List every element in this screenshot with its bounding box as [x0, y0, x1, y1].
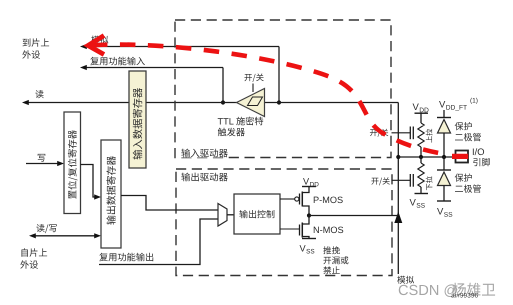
wire output stage to pad — [309, 215, 398, 217]
hysteresis symbol — [248, 97, 263, 106]
power VSS (diode) — [437, 200, 451, 202]
TTL schmitt trigger U1 — [237, 89, 265, 117]
wire write line into set/reset register — [26, 163, 59, 165]
wire output data register to mux — [121, 196, 218, 211]
node label 复用功能输入 — [90, 57, 145, 66]
protection diode D2 (to VSS) — [443, 157, 445, 170]
node label 输出驱动器 — [179, 172, 228, 182]
node pad junction on I/O line — [396, 155, 400, 159]
register: output data register — [101, 140, 121, 248]
wire I/O line — [398, 156, 455, 158]
watermark CSDN — [399, 284, 457, 297]
switch lever on trigger — [252, 84, 254, 93]
node label 复用功能输出 — [99, 253, 153, 262]
figure id — [451, 293, 478, 298]
register: bit set/reset register — [64, 112, 81, 214]
wire alternate-function-input line — [86, 67, 223, 69]
node label 下拉 (rotated) — [426, 176, 433, 190]
register: input data register — [129, 71, 146, 168]
red analog path annotation curve — [92, 45, 441, 154]
power VDD (pull-up) — [413, 103, 419, 110]
node analog tap on pad line — [277, 100, 281, 104]
wire AF input branch vertical — [222, 68, 224, 103]
node label 写 — [38, 154, 46, 162]
pull-down MOS gate — [392, 179, 411, 181]
red final dash over pin — [452, 154, 468, 159]
node label 读/写 — [36, 224, 56, 233]
power VDD_FT — [439, 101, 445, 108]
node label 输入驱动器 — [179, 148, 228, 158]
node AF input tap — [221, 100, 225, 104]
wire analog-in top line — [83, 46, 279, 48]
node label 保护二极管 (top) — [455, 122, 472, 130]
resistor pull-up (weak) with MOS switch — [418, 123, 424, 147]
node label 开/关 (pull-down switch) — [371, 177, 389, 185]
node label 输出控制 — [239, 210, 274, 218]
wire read/write line into output data register — [33, 235, 96, 237]
node label 自片上外设 — [21, 248, 47, 257]
wire schmitt input line to pad net — [265, 102, 399, 104]
transistor P-MOS Q1 — [280, 198, 295, 200]
protection diode D1 (to VDD_FT) — [437, 117, 451, 119]
mux (output select) — [218, 204, 227, 227]
wire analog branch vertical — [278, 47, 280, 103]
transistor N-MOS Q2 — [302, 216, 309, 225]
node output junction — [307, 213, 311, 217]
node pull-up junction — [419, 155, 423, 159]
wire alternate-function-output line — [99, 219, 218, 265]
node label 开/关 (schmitt) — [244, 73, 263, 82]
output control block — [234, 194, 280, 234]
red annotation arrowhead — [88, 36, 104, 55]
node label 保护二极管 (bottom) — [455, 173, 472, 181]
node label 开/关 (pull-up switch) — [370, 129, 388, 137]
node label 到片上外设 — [23, 38, 50, 46]
wire set/reset reg to output data reg — [81, 165, 97, 198]
node label TTL 施密特 触发器 — [218, 118, 234, 124]
input driver dashed box — [175, 20, 391, 158]
node label 读 — [35, 90, 43, 98]
node label 模拟 (top) — [91, 36, 108, 44]
wire read line to input data register and schmitt output — [28, 102, 237, 104]
wire pad net vertical — [397, 103, 399, 275]
pull-up MOS gate — [392, 132, 411, 134]
I/O pin pad — [456, 151, 469, 163]
resistor pull-down (weak) with MOS switch — [420, 157, 422, 163]
node label 模拟 (bottom) — [397, 276, 414, 284]
output driver dashed box — [176, 169, 392, 276]
node label 推挽 开漏或 禁止 — [323, 246, 340, 254]
power VSS (pull-down) — [410, 199, 416, 206]
node label I/O 引脚 — [473, 148, 484, 155]
node label 上拉 (rotated) — [426, 129, 433, 143]
wire mux output — [227, 214, 234, 216]
analog up arrow — [394, 212, 402, 224]
node diode junction on I/O line — [442, 155, 446, 159]
